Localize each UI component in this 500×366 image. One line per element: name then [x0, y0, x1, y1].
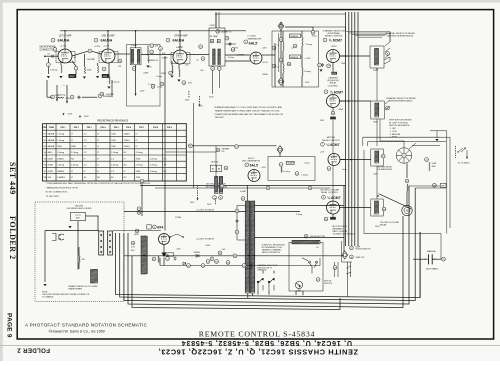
wire diamond to R28 [285, 26, 313, 28]
svg-text:100K: 100K [87, 70, 93, 72]
ref 180MMF [216, 148, 220, 152]
wire tube to box [332, 63, 334, 72]
relay1 lead [376, 68, 378, 70]
ref R23 [272, 46, 276, 50]
svg-text:265V: 265V [373, 122, 379, 124]
wire T3 to V4 [225, 54, 250, 56]
motor switch transistor circle [295, 281, 302, 291]
dashed 245V drop b [215, 198, 217, 205]
tube ref circle V4 [244, 40, 248, 44]
svg-text:1.5meg: 1.5meg [156, 76, 162, 78]
tube V5d 6CM7 [327, 201, 340, 214]
svg-text:6AU6A: 6AU6A [173, 39, 185, 43]
tube V2 6AU6A [101, 49, 115, 63]
ref C26 [293, 44, 297, 48]
wire r28 stub [312, 27, 314, 31]
wire drop l [159, 258, 161, 266]
ground v3 screen [170, 76, 173, 78]
wire top rail to right [216, 13, 345, 15]
resistor v8 bottom [158, 256, 159, 263]
box inner vertical wires [335, 262, 339, 277]
wire left of T1 [236, 206, 238, 241]
boxed capacitor 680MMF upper [289, 34, 300, 38]
svg-text:245V: 245V [185, 100, 190, 102]
svg-text:A7: A7 [217, 40, 219, 43]
svg-text:½ 6CM7: ½ 6CM7 [329, 39, 342, 43]
svg-text:180MMF: 180MMF [287, 163, 295, 165]
routing loop 1 [116, 232, 421, 298]
ref t1 a [235, 209, 239, 213]
resistor 2.2meg [302, 37, 303, 46]
IF transformer T2 can [130, 48, 141, 65]
svg-text:+123V: +123V [103, 46, 110, 48]
box left wire [274, 43, 276, 87]
svg-text:GRN: GRN [134, 234, 139, 236]
svg-text:RF TANK: RF TANK [210, 35, 219, 38]
ref below V5b [331, 111, 335, 115]
test point diamond TP2 [278, 78, 284, 86]
svg-text:50MF 25V: 50MF 25V [356, 257, 365, 259]
wire V1 plate to B+ rail [64, 31, 66, 49]
wire [282, 51, 284, 64]
bus top stub [345, 27, 347, 32]
svg-text:470K: 470K [70, 76, 75, 78]
svg-text:¼ 6CM7: ¼ 6CM7 [327, 196, 340, 200]
switch symbol 2 [268, 278, 274, 291]
svg-text:2.2 meg: 2.2 meg [283, 171, 290, 173]
arrow feed b [79, 116, 81, 118]
terminal strip 2 [108, 231, 113, 255]
svg-text:265V: 265V [373, 70, 379, 72]
disc can riser a [215, 12, 217, 28]
wire to stepper top [380, 140, 404, 142]
svg-text:2.2meg: 2.2meg [228, 57, 234, 59]
ground cath V2 [96, 76, 99, 78]
wire stepper in [403, 141, 405, 148]
diode 1N34A [196, 254, 199, 257]
wire b- rail a [47, 96, 52, 98]
ref y146 a [189, 144, 193, 148]
tube V6 6AL5 [248, 170, 260, 182]
wire V5c to relay3 [340, 159, 371, 161]
tube ref circle V5c [321, 142, 325, 146]
wire can drop a [212, 71, 214, 95]
dashed 245V drop [188, 91, 190, 98]
wire audio drop a [446, 131, 448, 234]
wire manual box left [363, 150, 365, 234]
ground [177, 80, 180, 82]
ref below v5d [324, 217, 328, 221]
svg-text:FOLDER 2: FOLDER 2 [17, 347, 50, 354]
ref C22 [279, 38, 283, 42]
ref [231, 48, 235, 52]
wire grid leak [47, 58, 49, 63]
ref C15 [160, 82, 164, 86]
T1 winding right [251, 201, 255, 293]
wire input to V1 grid [45, 55, 58, 57]
ref [137, 207, 141, 211]
wire [332, 108, 334, 112]
wire T3 to V4 lower [225, 60, 250, 62]
T3 secondary coil [218, 49, 221, 65]
wire res bot [301, 76, 303, 87]
svg-text:1meg: 1meg [342, 169, 347, 171]
page rule line below border [0, 345, 500, 347]
ref sp b [266, 186, 270, 190]
svg-text:MOTORSWITCH: MOTORSWITCH [324, 280, 332, 284]
wire loop to audio area [409, 185, 440, 187]
plug symbols [52, 234, 64, 241]
bus wire 5 [357, 12, 359, 246]
relay1 ref [386, 52, 390, 56]
svg-text:+140V: +140V [205, 245, 211, 247]
cap near R27 [321, 63, 324, 67]
wire v5c to v5d [332, 166, 334, 202]
wire V3 left drop [164, 56, 166, 95]
wire enclosure to T1 [124, 211, 245, 213]
relay4 frame [371, 199, 384, 216]
gen transformer secondary [219, 177, 222, 194]
ref R5 [51, 95, 55, 99]
svg-text:6AU6A: 6AU6A [58, 39, 70, 43]
ref C9 [102, 67, 106, 71]
svg-text:+26V: +26V [262, 48, 268, 50]
resistor cathode V2 [98, 66, 99, 74]
gen transformer ref a [213, 196, 217, 200]
wire rect cath to rail [163, 258, 165, 266]
wire box cap b [301, 56, 302, 58]
wire plate [72, 61, 76, 66]
svg-text:245V: 245V [68, 114, 73, 116]
svg-text:ZENITH CHASSIS 16C21, Q, U, Z,: ZENITH CHASSIS 16C21, Q, U, Z, 16C22Q, 1… [158, 347, 358, 356]
switch arms rect [170, 234, 183, 237]
wire relay1 to relay2 [376, 68, 378, 101]
svg-text:1N34A: 1N34A [262, 73, 268, 76]
wire [147, 46, 149, 56]
bus tail wire b [350, 262, 352, 277]
ref right of boxes [224, 166, 228, 170]
svg-text:3: 3 [70, 62, 71, 64]
discriminator can T3 [209, 28, 225, 66]
svg-text:.5: .5 [63, 85, 64, 87]
svg-text:245V: 245V [66, 98, 72, 100]
wire to 250V point [56, 85, 58, 100]
svg-text:©Howard W. Sams & Co., Inc 195: ©Howard W. Sams & Co., Inc 1959 [49, 329, 105, 333]
resistor below stepper [407, 184, 408, 191]
wire res top [301, 31, 303, 37]
wire can right [225, 43, 236, 45]
dashed wire to tv audio [455, 146, 457, 158]
ref R25 [272, 64, 276, 68]
ref l1 [166, 257, 170, 261]
tube ref circle V6 [245, 163, 249, 167]
svg-text:2: 2 [60, 62, 61, 64]
svg-text:265V: 265V [198, 105, 203, 107]
gen transformer ref b [219, 196, 223, 200]
wire v5c to bus [340, 159, 346, 161]
top rail left section [60, 30, 246, 32]
ref 20K [150, 44, 154, 48]
ref C19 [225, 36, 229, 40]
boxed label pilot [166, 253, 174, 256]
ground encl 2 [43, 284, 46, 286]
cap right of can [229, 42, 232, 46]
svg-text:390K: 390K [161, 73, 167, 75]
resistor 1.0meg [302, 68, 303, 76]
long rail y256 [124, 255, 344, 257]
motor switch box [289, 243, 323, 292]
ref R13 [169, 71, 173, 75]
wire relay2 down [376, 119, 378, 146]
wire grid resistor [83, 54, 85, 67]
relay1 contacts lower [384, 57, 390, 64]
svg-text:6AL5: 6AL5 [249, 41, 258, 45]
wire cap right [437, 258, 441, 260]
wire boxes to coil [215, 172, 217, 177]
resistor 1.2meg [109, 76, 110, 84]
sw drop 4 [302, 291, 304, 295]
wire V1 plate to C8 [72, 51, 88, 56]
switch symbol 1 [257, 278, 263, 291]
rail 46V [140, 185, 346, 187]
left drop wire s1 [46, 80, 48, 97]
svg-text:MUTING RELAYDE-ENERGIZED: MUTING RELAYDE-ENERGIZED [378, 165, 393, 170]
ref R27 [318, 63, 322, 67]
wire V3 plate to rail [179, 31, 181, 50]
svg-text:+123V: +123V [94, 46, 101, 48]
boxed cap 180MMF [286, 161, 294, 164]
ref a [327, 64, 331, 68]
cathode arrow [162, 253, 167, 258]
wire right loop inner riser [419, 232, 421, 297]
wire V5b to relay2 [340, 100, 371, 102]
arrow stub audio [466, 150, 468, 157]
capacitor C6 [77, 96, 81, 99]
wire res mid [301, 47, 303, 68]
arrow 265V [199, 104, 201, 106]
svg-text:4.5MC: 4.5MC [131, 45, 138, 47]
relay4 coil [375, 201, 379, 214]
capacitor manual [424, 254, 437, 264]
IF unit box [127, 45, 161, 107]
left drop wire s2 [111, 80, 113, 97]
wire to motor [406, 191, 408, 206]
wire to 180MMF [165, 151, 216, 153]
cap C3 ref [74, 66, 78, 70]
test point diamond TP4 [277, 146, 283, 154]
wire diamond drop [280, 30, 282, 78]
svg-text:2.2: 2.2 [277, 45, 279, 47]
wire T2 to V3 [141, 54, 173, 56]
routing loop 3 [124, 186, 409, 304]
bus top horizontals [346, 32, 390, 38]
wire [282, 73, 284, 87]
bus wire 4 [354, 12, 356, 246]
svg-text:1meg: 1meg [157, 87, 162, 89]
gen transformer primary [215, 177, 218, 194]
box inner wire [278, 33, 280, 72]
svg-text:TO TV AUDIO: TO TV AUDIO [458, 161, 471, 164]
ref C10 [100, 92, 104, 96]
switch contacts in box [302, 258, 318, 274]
left drop wire [141, 183, 143, 217]
wire y146 [188, 145, 277, 147]
svg-text:(+) 265V SOURCE: (+) 265V SOURCE [196, 239, 215, 241]
T1 ref [241, 197, 245, 201]
ref t1 b [235, 230, 239, 234]
svg-text:¼ 6CM7: ¼ 6CM7 [330, 90, 343, 94]
svg-text:7: 7 [103, 51, 104, 53]
svg-text:680MMF 5%: 680MMF 5% [148, 60, 159, 62]
svg-text:.0047MF: .0047MF [87, 59, 96, 61]
connector marks tail [346, 267, 351, 274]
ref y146 b [235, 145, 239, 149]
wire T1 right a [255, 205, 344, 207]
svg-text:TUNER: TUNER [162, 58, 169, 60]
svg-text:MANUAL: MANUAL [427, 250, 437, 253]
bus tail wire a [347, 262, 349, 297]
svg-text:+125V: +125V [176, 47, 183, 49]
test point diamond TP1 [278, 22, 284, 30]
wire 20K top [78, 247, 80, 256]
enclosure wire a [45, 230, 99, 232]
ref C6 [70, 95, 74, 99]
tube ref circle V5b [324, 90, 328, 94]
svg-text:5: 5 [71, 51, 72, 53]
bias box a [331, 72, 337, 75]
ground enclosure [68, 226, 71, 228]
wire V1 cathode [60, 63, 62, 66]
relay1 frame [370, 46, 384, 68]
test point diamond TP3 [342, 251, 348, 259]
generator box [268, 157, 315, 181]
cap t1 left [236, 219, 239, 223]
ref l2 [201, 264, 205, 268]
wire to box [75, 70, 77, 74]
wire V3 to T3 [187, 54, 209, 56]
arrow 250V feed [56, 99, 58, 101]
tube V3 6AU6A [173, 50, 187, 64]
tube V5b 6CM7 [327, 95, 340, 108]
relay2 coil [375, 103, 379, 117]
arrow 245V feed [66, 101, 68, 103]
wire T2 bottom drop [135, 65, 137, 94]
wire [108, 63, 110, 76]
resistor R5 6.8meg [56, 97, 64, 98]
cap l1 [174, 257, 177, 261]
resistor 2.2meg v6 [281, 167, 282, 173]
svg-text:WW: WW [432, 166, 436, 168]
ground audio [435, 139, 438, 141]
stub to T1 [237, 239, 245, 241]
coupling cap C8 ref [88, 49, 92, 53]
wire b- rail b [82, 96, 97, 98]
V3 shield box [171, 53, 190, 64]
wire v5b to bus [340, 100, 346, 102]
wire T3 top up [215, 14, 217, 28]
ref C7 [98, 94, 102, 98]
relay4 arm [379, 194, 411, 209]
wire [178, 64, 180, 69]
resistor v3 screen [172, 66, 173, 73]
ref 1meg v3 [151, 85, 155, 89]
wire T1 top [246, 186, 248, 202]
wire cap left [413, 258, 424, 260]
T2 secondary winding [137, 50, 139, 64]
ref [137, 211, 141, 215]
resistor 20K enclosure [79, 256, 80, 263]
svg-text:U, 16C24, U, 5B26, 5B28, 5-458: U, 16C24, U, 5B26, 5B28, 5-45832, 5-4583… [181, 339, 352, 346]
svg-text:SET 449: SET 449 [8, 162, 17, 195]
tube ref circle V5d [322, 195, 326, 199]
disc can riser b [218, 12, 220, 28]
svg-text:CHANNEL SELECTOR RELAY(SHOWN E: CHANNEL SELECTOR RELAY(SHOWN ENERGIZED) [386, 97, 416, 103]
ref np2 [350, 255, 354, 259]
ref mid box [287, 62, 291, 66]
sw drop 3 [295, 291, 297, 295]
svg-text:390MMF: 390MMF [103, 96, 112, 98]
wire T1 right b [255, 211, 300, 213]
svg-text:A1: A1 [212, 167, 214, 170]
svg-text:4.5MC: 4.5MC [210, 25, 216, 27]
svg-text:1.0meg: 1.0meg [304, 71, 311, 73]
ref v8 a [131, 241, 135, 245]
wire v3 screen [171, 61, 173, 66]
contact join [389, 57, 391, 61]
bus wire 3 [351, 12, 353, 246]
svg-text:+34V: +34V [176, 249, 181, 251]
cap C1 ref [47, 63, 51, 67]
ref [218, 251, 222, 255]
ref below V5c [327, 167, 331, 171]
svg-text:-22V: -22V [320, 152, 325, 154]
ref row a [206, 260, 210, 264]
ref C18 [216, 30, 220, 34]
relay3 frame [371, 149, 384, 166]
relay2 frame [371, 101, 385, 119]
wire v5b to v5c [332, 120, 334, 154]
resistor 500K WW [429, 162, 430, 171]
svg-text:.05: .05 [196, 60, 199, 62]
ground r27 [319, 70, 322, 72]
screen terminal box [69, 74, 76, 78]
routing loop 5 [132, 256, 340, 310]
rail y265 [160, 265, 320, 267]
svg-text:5TH IF AMP: 5TH IF AMP [174, 34, 188, 37]
T3 ref a [211, 67, 215, 71]
ref R33 [405, 179, 409, 183]
motor switch ref [316, 278, 320, 282]
rail 46V lower [155, 187, 330, 189]
resistor in box a [283, 42, 284, 51]
ref sp a [220, 184, 224, 188]
boxed A1 [210, 165, 216, 172]
wire can drop b [218, 71, 220, 89]
relay3 coil [375, 151, 379, 163]
ref l3 [242, 264, 246, 268]
svg-text:680MMF: 680MMF [290, 57, 299, 59]
svg-text:1.2meg: 1.2meg [301, 175, 308, 177]
ground grid [47, 76, 50, 78]
cluster left wire [341, 241, 343, 262]
svg-text:1meg: 1meg [312, 36, 317, 38]
audio riser b [367, 142, 369, 146]
wire C8 to V2 grid [92, 51, 101, 54]
arrow T2 drop [135, 94, 137, 96]
ref C12 [150, 50, 154, 54]
boxed A4 [216, 165, 221, 172]
wire 20K bottom [78, 263, 80, 270]
